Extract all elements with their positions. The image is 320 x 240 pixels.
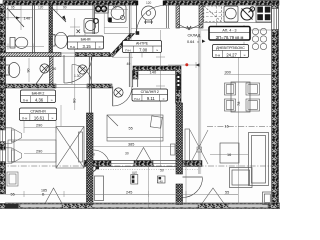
exterior wall right [272,2,279,209]
opening mark bottom-left [45,188,62,204]
exterior wall top-left segment [3,1,136,6]
wall hall L horizontal [133,66,180,71]
bedroom2 terrace door [88,150,110,176]
svg-text:18: 18 [91,153,95,157]
terrace light 2 [157,176,165,184]
svg-text:СПАЛНЯ: СПАЛНЯ [30,109,46,113]
dim line v terrace [148,167,186,207]
svg-text:140: 140 [24,15,31,20]
niche sill [177,24,203,30]
svg-text:≈: ≈ [99,45,101,49]
terrace dotted line [96,168,198,170]
svg-text:290: 290 [36,124,42,128]
svg-text:7.00: 7.00 [139,47,148,52]
floor drain bath [78,65,87,74]
label box bedroom1 [20,108,57,121]
label box bath [68,36,104,49]
shaft diagonal bath [50,6,66,22]
svg-text:ЩO: ЩO [132,171,138,175]
oven [224,6,238,22]
floor drain bath2 [40,64,49,73]
svg-text:АП. 4 - 3: АП. 4 - 3 [222,28,236,32]
opening mark bedroom2 [133,148,154,167]
svg-text:4.36: 4.36 [35,97,44,102]
wall hall L vertical [133,71,139,88]
wall between baths and bedroom [0,84,112,88]
wc toilet [10,37,28,48]
exterior wall top-right segment [165,1,279,6]
dim 290 b [24,150,56,154]
entry door [137,5,165,33]
exterior wall bottom [0,204,280,209]
floor drain hall [114,88,123,97]
diagonal wall hall-bath [109,34,135,57]
dim 290 a [24,124,56,128]
svg-text:55: 55 [113,6,117,10]
dim line bath2 top [2,44,44,50]
exterior wall left [0,4,6,194]
svg-text:≈: ≈ [197,40,199,44]
dim line bottom-left [6,191,239,197]
kitchen counter edge [203,5,272,23]
svg-text:140: 140 [150,70,157,75]
dim line v hall [156,30,165,166]
svg-text:40: 40 [127,62,131,66]
storage niche left wall [176,5,180,28]
svg-text:120: 120 [38,6,44,10]
svg-text:0.64: 0.64 [187,40,194,44]
wall bedroom2/living vertical [176,103,183,205]
dining table [231,82,250,112]
bath right wall [93,5,95,34]
label box bath2 [21,90,56,103]
bath2 toilet [6,63,20,78]
shelf with jars [95,5,109,13]
bath door [64,55,92,83]
bath sink [84,19,99,34]
bedroom2 door [113,87,133,107]
dim 185 bottom [41,189,47,197]
svg-text:≈: ≈ [51,98,53,102]
dining chairs [225,83,260,111]
dim line kitchen dashed [206,6,244,56]
bedroom1 door [72,65,92,85]
red survey dot [185,63,188,66]
shower diagonal [36,64,50,84]
kitchen sink [241,7,255,20]
bath cross mark [77,30,81,34]
scale note bottom-left [6,204,19,209]
svg-text:СКЛАД: СКЛАД [188,34,201,38]
storage niche right wall [199,5,203,28]
svg-text:55: 55 [225,191,229,195]
svg-text:120: 120 [146,1,152,5]
svg-text:П-Н: П-Н [134,97,139,101]
living terrace door [183,177,203,198]
svg-text:П-Н: П-Н [23,98,28,102]
storage wall text [176,74,180,90]
dim tiny texts top [11,6,117,10]
svg-text:≈: ≈ [156,48,158,52]
svg-text:16.61: 16.61 [34,115,45,120]
entry door handle [136,31,140,35]
svg-text:16: 16 [227,153,231,157]
coffee table [220,143,239,163]
boiler [142,6,156,24]
bed bedroom2 [107,115,163,141]
svg-text:П-Н: П-Н [125,48,130,52]
svg-text:СПАЛНЯ 2: СПАЛНЯ 2 [141,90,159,94]
opening mark bottom-right [202,188,224,204]
washer niche line [103,5,105,33]
leader lines [38,30,142,90]
svg-text:90: 90 [53,67,57,71]
label box apartment [209,27,250,41]
wall wc right vertical [33,5,35,53]
svg-text:П-Н: П-Н [70,45,75,49]
dim 300 living [224,71,272,75]
tv cabinet [263,192,273,205]
svg-text:16: 16 [225,124,229,128]
svg-text:90: 90 [63,6,67,10]
svg-text:9.11: 9.11 [147,96,156,101]
svg-text:ЗП=78.79 кв м: ЗП=78.79 кв м [216,35,244,40]
dim 16 right [210,153,248,157]
hall south line [112,56,133,58]
svg-text:60: 60 [96,6,100,10]
window reveal 1 [6,128,22,144]
dim line below counter [201,29,272,31]
living room left boundary line [199,28,201,174]
label box living [213,45,249,58]
stove burners [256,6,272,23]
wall bath2 right vertical [50,57,54,85]
dim 385 bedroom2 [93,143,176,147]
svg-text:≈: ≈ [244,53,246,57]
svg-text:55: 55 [11,193,15,197]
svg-text:≈: ≈ [51,116,53,120]
dim 140 hall [138,70,176,75]
bath toilet [51,32,68,48]
window reveal 2 [6,148,22,164]
svg-text:55: 55 [129,127,133,131]
svg-text:300: 300 [225,71,231,75]
terrace planter [95,176,104,201]
svg-text:385: 385 [128,143,134,147]
facade wall bedrooms-terrace [84,161,202,167]
svg-text:95: 95 [11,6,15,10]
svg-text:90: 90 [27,69,31,73]
entry jambs [135,1,166,6]
svg-text:3.15: 3.15 [83,44,92,49]
shelf living [185,129,190,165]
radiator bedroom2 [171,144,176,155]
svg-text:ДНЕВ/ТРП/БОКС: ДНЕВ/ТРП/БОКС [216,46,245,50]
svg-text:БАНЯ 2: БАНЯ 2 [32,91,45,95]
wall baths horizontal [0,53,110,57]
svg-text:78: 78 [236,101,241,106]
hall left wall line [104,5,131,87]
dim 140 wc [16,15,31,20]
dim line v living [237,56,239,204]
bed bedroom1 [8,140,56,162]
label box bedroom2 [132,89,168,101]
shaft diagonal wc [7,8,24,27]
fridge dashed [204,6,222,22]
axis dash-dot horizontal [0,165,280,167]
svg-text:245: 245 [126,191,132,195]
dim line bedroom1 vertical [24,105,61,133]
wardrobe bedroom1 [56,127,84,169]
svg-text:2.40: 2.40 [157,180,163,184]
dim 55 bottom-right [224,191,238,195]
dim line top chain [4,6,128,31]
wardrobe living X [190,130,208,164]
terrace light 1 [131,171,138,185]
storage label [187,34,205,45]
washing machine [104,5,128,27]
dim line terrace 245 [93,191,148,195]
svg-text:50: 50 [160,169,164,173]
svg-text:1.30: 1.30 [74,74,81,78]
dim line v bath [70,18,80,110]
facade small texts [91,152,164,173]
nightstand [7,172,18,186]
sofa [230,133,269,188]
terrace edge line [5,201,280,203]
axis dash-dot right upper [207,126,271,128]
svg-text:≈: ≈ [163,97,165,101]
wall storage-kitchen vertical [176,66,182,103]
svg-text:24.27: 24.27 [226,52,237,57]
svg-text:30: 30 [125,152,129,156]
svg-text:П-Н: П-Н [215,53,220,57]
bath sink line [48,35,67,37]
dim marks hall [131,28,170,30]
svg-text:АНТРЕ: АНТРЕ [136,42,149,46]
svg-text:290: 290 [36,150,42,154]
svg-text:П-Н: П-Н [22,116,27,120]
svg-text:БАНЯ: БАНЯ [81,38,91,42]
wall bath left vertical [49,5,53,57]
svg-text:90: 90 [72,98,77,103]
wall bedroom1/bedroom2 vertical [87,57,94,205]
dim line storage [168,62,200,68]
niche left edge wall [167,5,169,28]
bar stools [252,28,266,49]
dim 90 bath2 [27,58,81,82]
label box hall [123,41,162,53]
